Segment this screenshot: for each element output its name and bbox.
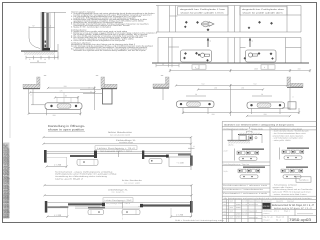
svg-text:Weitergabe sowie Vervielfaelti: Weitergabe sowie Vervielfaeltigung diese… <box>8 148 11 218</box>
svg-text:Einbaulänge XL: Einbaulänge XL <box>116 139 137 142</box>
svg-text:L = 200: L = 200 <box>176 213 184 216</box>
svg-text:Bodenverschluß für SO-Flügel,: Bodenverschluß für SO-Flügel, EC 1 S, 47 <box>272 204 315 207</box>
svg-text:30: 30 <box>90 90 92 93</box>
svg-text:7050-xp03: 7050-xp03 <box>289 218 311 222</box>
svg-text:dargestellt fuer Profilzylinde: dargestellt fuer Profilzylinder 17mm <box>180 8 226 11</box>
svg-text:28: 28 <box>195 93 197 96</box>
svg-text:22: 22 <box>37 60 39 63</box>
svg-text:176: 176 <box>60 90 63 93</box>
svg-text:lichte Baubreite: lichte Baubreite <box>122 179 142 182</box>
svg-text:dargestellt fuer Profilzylinde: dargestellt fuer Profilzylinder oben <box>242 8 284 11</box>
svg-text:- siehe prEN 12650: - siehe prEN 12650 <box>273 139 291 142</box>
svg-text:6. Masse in mm, Aenderungen vo: 6. Masse in mm, Aenderungen vorbehalten <box>71 26 111 29</box>
svg-text:258: 258 <box>264 113 267 116</box>
svg-text:95: 95 <box>65 95 67 98</box>
svg-text:512: 512 <box>202 83 205 86</box>
svg-text:1035: 1035 <box>254 68 258 71</box>
svg-text:25: 25 <box>88 86 90 89</box>
svg-text:Drehtafel / urbanes Lack: Drehtafel / urbanes Lack <box>223 192 267 195</box>
svg-text:12: 12 <box>44 58 46 61</box>
svg-text:8: 8 <box>29 58 30 61</box>
svg-text:shown for profile cylinder obe: shown for profile cylinder oben <box>243 11 283 14</box>
svg-text:24,5 +: 24,5 + <box>224 170 229 173</box>
svg-text:158: 158 <box>64 85 67 88</box>
svg-text:258: 258 <box>212 113 215 116</box>
svg-text:Lichter Durchgang + 78+2: Lichter Durchgang + 78+2 <box>105 199 132 202</box>
svg-text:Drehfluegeltueren / Tige loe: Drehfluegeltueren / Tige loe <box>223 163 249 166</box>
svg-text:Lichter Durchgang + 78+2: Lichter Durchgang + 78+2 <box>97 147 136 150</box>
svg-text:11: 11 <box>193 145 195 148</box>
svg-text:GEZE: GEZE <box>263 205 270 208</box>
svg-text:158: 158 <box>241 87 244 90</box>
svg-text:150: 150 <box>298 68 301 71</box>
svg-text:25: 25 <box>162 63 164 66</box>
svg-text:158: 158 <box>214 87 217 90</box>
svg-text:- weitere Hinweise siehe Blatt: - weitere Hinweise siehe Blatt 2 unten <box>273 193 307 196</box>
svg-text:Alle Befestigungen und soweit: Alle Befestigungen und soweit erforderli… <box>224 197 312 200</box>
svg-text:24,5 +: 24,5 + <box>224 150 229 153</box>
svg-text:57: 57 <box>32 25 34 28</box>
svg-text:28: 28 <box>261 93 263 96</box>
svg-text:5: 5 <box>50 25 51 28</box>
svg-text:1035: 1035 <box>195 68 199 71</box>
svg-text:Abdecken von Gefahrenstellen /: Abdecken von Gefahrenstellen / safeguard… <box>224 123 294 126</box>
svg-text:automatic door systems must be: automatic door systems must be observed … <box>74 49 146 52</box>
svg-text:512: 512 <box>254 83 257 86</box>
svg-text:a: a <box>252 41 253 43</box>
svg-text:Drehkonstruktion / urbanes Lac: Drehkonstruktion / urbanes Lack <box>223 184 267 187</box>
svg-text:b: b <box>264 66 265 69</box>
svg-text:Drehkasten / Wandstaerke: Drehkasten / Wandstaerke <box>223 188 263 191</box>
svg-text:+ x 100: + x 100 <box>176 161 184 164</box>
svg-text:shown for profile cylinder 17m: shown for profile cylinder 17mm <box>181 11 225 14</box>
svg-text:a: a <box>210 41 211 43</box>
svg-text:L = 200: L = 200 <box>54 164 62 167</box>
svg-text:258: 258 <box>53 114 56 117</box>
svg-text:Drehfluegeltueren / single lea: Drehfluegeltueren / single leaf <box>224 127 249 130</box>
svg-text:shown in open position: shown in open position <box>48 127 84 131</box>
svg-text:hinge side: hinge side <box>251 127 263 130</box>
svg-text:8: 8 <box>293 96 294 99</box>
svg-text:SHB = Sonderhub bei Notentrieg: SHB = Sonderhub bei Notentriegelung unte… <box>175 219 224 222</box>
svg-text:L/B-H=...: L/B-H=... <box>228 144 235 147</box>
svg-text:8: 8 <box>31 94 32 97</box>
svg-text:siehe auch Blatt 2: siehe auch Blatt 2 <box>55 178 83 181</box>
svg-text:lichte Baubreite: lichte Baubreite <box>108 131 134 134</box>
svg-text:Bottom lock for SO doors, EC 1: Bottom lock for SO doors, EC 1 S, 47 <box>274 207 313 210</box>
svg-text:Anfahrlänge XL: Anfahrlänge XL <box>108 188 129 191</box>
svg-text:Tandeo: Tandeo <box>299 179 309 182</box>
